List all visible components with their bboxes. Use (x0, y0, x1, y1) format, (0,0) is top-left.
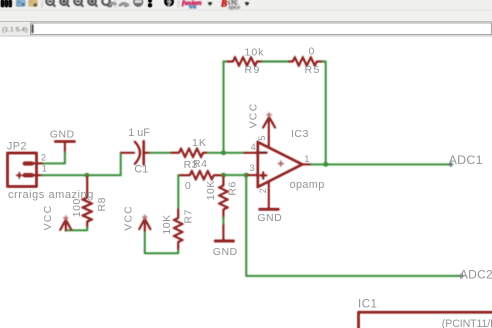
resistor R3 (1K) (171, 149, 208, 157)
resistor R8 (83, 175, 92, 228)
svg-text:link: link (189, 4, 197, 10)
wire between R9 and R5 (262, 61, 289, 63)
svg-text:10k: 10k (245, 46, 265, 58)
ground symbol below op-amp (260, 208, 279, 210)
op-amp IC3 (244, 118, 311, 210)
wire R3 to pin4 (208, 152, 245, 154)
svg-text:GND: GND (257, 212, 282, 224)
zoom icons (5 magnifiers) (46, 0, 111, 7)
svg-text:GND: GND (50, 128, 75, 140)
wire R7 bottom to VCC (145, 231, 178, 253)
capacitor C1 (121, 141, 150, 164)
svg-text:ADC1: ADC1 (449, 153, 483, 167)
wire feedback left vertical (223, 62, 225, 153)
command bar background (0, 22, 492, 36)
svg-text:R7: R7 (182, 209, 194, 223)
svg-text:1: 1 (42, 163, 47, 173)
supply VCC (mid) (139, 219, 150, 231)
supply VCC (op-amp) (263, 117, 275, 128)
svg-text:IC3: IC3 (291, 128, 309, 140)
svg-text:3: 3 (250, 163, 255, 173)
IC1 box (359, 312, 492, 328)
wire output to ADC1 (311, 163, 451, 165)
svg-text:4: 4 (251, 142, 256, 152)
stop icon (134, 0, 143, 6)
wire feedback left corner (224, 61, 228, 63)
wire feedback right vertical (323, 62, 326, 165)
svg-text:0: 0 (185, 180, 191, 192)
svg-text:C1: C1 (134, 164, 148, 176)
resistor R5 (289, 57, 323, 65)
svg-text:10K: 10K (205, 180, 217, 200)
toolbar separator (42, 0, 43, 8)
svg-text:(1.1 5.4): (1.1 5.4) (2, 26, 27, 33)
svg-text:R4: R4 (193, 158, 207, 170)
canvas boundary (0, 36, 492, 37)
svg-text:1 uF: 1 uF (128, 127, 150, 139)
coordinate display box (1, 24, 29, 35)
junction at R8 top (85, 173, 89, 177)
wire C1 to R3 (150, 152, 171, 154)
svg-text:(PCINT11/P: (PCINT11/P (442, 318, 492, 328)
svg-text:2: 2 (258, 188, 268, 193)
dropdown caret 2 (245, 3, 249, 6)
svg-text:0: 0 (309, 45, 315, 57)
svg-text:5: 5 (257, 136, 267, 141)
icon columns (layer settings) (1, 0, 11, 7)
toolbar divider (0, 21, 492, 22)
svg-text:100: 100 (71, 198, 83, 217)
svg-text:R8: R8 (96, 197, 108, 211)
wire R8 bottom to VCC (66, 228, 87, 231)
icon schematic (blue) (16, 0, 25, 6)
resistor R7 (174, 209, 182, 250)
svg-text:?: ? (167, 0, 172, 7)
wire ADC2 vertical (246, 175, 461, 276)
svg-text:R5: R5 (305, 64, 321, 76)
resistor R4 (0 ohm) (178, 171, 223, 179)
separator (178, 0, 179, 8)
wire R6 to ground (222, 217, 224, 225)
ground symbol at JP2 (55, 142, 74, 153)
wire pin1 row (42, 174, 120, 176)
svg-text:2: 2 (41, 153, 46, 163)
svg-text:VCC: VCC (122, 205, 134, 231)
svg-text:B: B (220, 0, 227, 9)
undo arrow (grey) (109, 3, 116, 6)
svg-text:IC1: IC1 (358, 299, 377, 311)
svg-text:GND: GND (213, 246, 238, 258)
svg-text:R6: R6 (227, 181, 239, 195)
svg-text:1K: 1K (192, 137, 207, 149)
wire pin2 to ground (42, 152, 65, 163)
svg-text:VCC: VCC (247, 103, 259, 129)
svg-text:spice: spice (229, 5, 241, 11)
svg-text:10K: 10K (161, 214, 173, 234)
svg-text:JP2: JP2 (7, 140, 27, 152)
ground symbol below R6 (215, 225, 233, 241)
junction ADC2 tap (244, 173, 248, 177)
plugin logo fusion/link (182, 0, 202, 10)
redo arrow (grey) (120, 3, 128, 6)
toolbar background (0, 0, 492, 22)
separator (115, 0, 116, 8)
plugin logo LTspice (220, 0, 240, 11)
svg-text:opamp: opamp (290, 179, 325, 191)
resistor R9 (228, 57, 263, 65)
icon board (tan) (29, 0, 38, 6)
svg-text:1: 1 (304, 154, 309, 164)
help icon (165, 0, 174, 7)
wire R4 corner down to R7 (177, 175, 179, 209)
junction pin4 net (221, 151, 225, 155)
svg-text:ADC2: ADC2 (460, 268, 492, 282)
supply VCC (left) (60, 220, 71, 231)
svg-text:VCC: VCC (42, 205, 54, 231)
dropdown caret (208, 3, 212, 6)
wire pin3 net (224, 174, 247, 176)
origin cross IC3 (278, 161, 283, 166)
junction output/feedback (324, 162, 328, 166)
connector JP2 (8, 153, 43, 187)
command input field (31, 23, 492, 35)
dots icon (149, 0, 152, 2)
wire up to C1 (120, 153, 123, 175)
junction R6 top (221, 173, 225, 177)
resistor R6 (219, 175, 227, 217)
svg-text:R9: R9 (245, 64, 261, 76)
